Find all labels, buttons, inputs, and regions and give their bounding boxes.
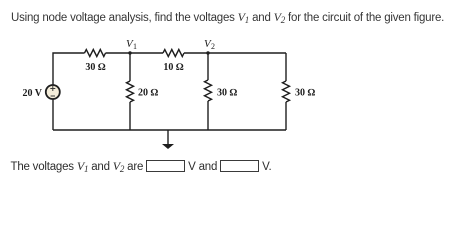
wire 10ohm to node V2 and to top-right corner: [184, 52, 286, 54]
svg-text:2: 2: [211, 42, 215, 51]
resistor R 20ohm (vertical, V1 branch): [127, 81, 134, 102]
wire V2 branch bottom: [207, 101, 209, 130]
wire top-left: corner to 30ohm resistor: [53, 53, 85, 85]
wire right rail top: [285, 53, 287, 81]
question text: [11, 10, 444, 25]
resistor R 30ohm (top left, horizontal): [85, 50, 106, 57]
svg-text:10 Ω: 10 Ω: [163, 62, 184, 73]
voltage source VS 20V circle: [46, 85, 60, 99]
wire bottom rail: [53, 129, 286, 131]
resistor R 30ohm (vertical, right rail): [283, 81, 290, 102]
plus sign of source: [52, 86, 54, 91]
svg-text:30 Ω: 30 Ω: [217, 88, 238, 99]
resistor R 30ohm (vertical, V2 branch): [205, 80, 212, 101]
minus sign of source: [51, 95, 55, 97]
wire V2 branch top: [207, 53, 209, 80]
svg-text:30 Ω: 30 Ω: [295, 88, 316, 99]
svg-text:20 Ω: 20 Ω: [138, 88, 159, 99]
wire left rail below source: [52, 99, 54, 130]
resistor R 10ohm (top middle, horizontal): [163, 50, 184, 57]
svg-text:20 V: 20 V: [22, 88, 42, 99]
wire right rail bottom: [285, 102, 287, 130]
wire V1 branch top: [129, 53, 131, 81]
svg-text:1: 1: [133, 42, 137, 51]
wire 30ohm to node V1: [106, 52, 164, 54]
answer sentence: [11, 159, 272, 174]
node V2 dot: [206, 51, 209, 54]
wire V1 branch bottom: [129, 102, 131, 130]
node V1 dot: [128, 51, 131, 54]
ground arrow triangle: [162, 144, 174, 149]
ground stem: [167, 130, 169, 144]
svg-text:30 Ω: 30 Ω: [85, 62, 106, 73]
